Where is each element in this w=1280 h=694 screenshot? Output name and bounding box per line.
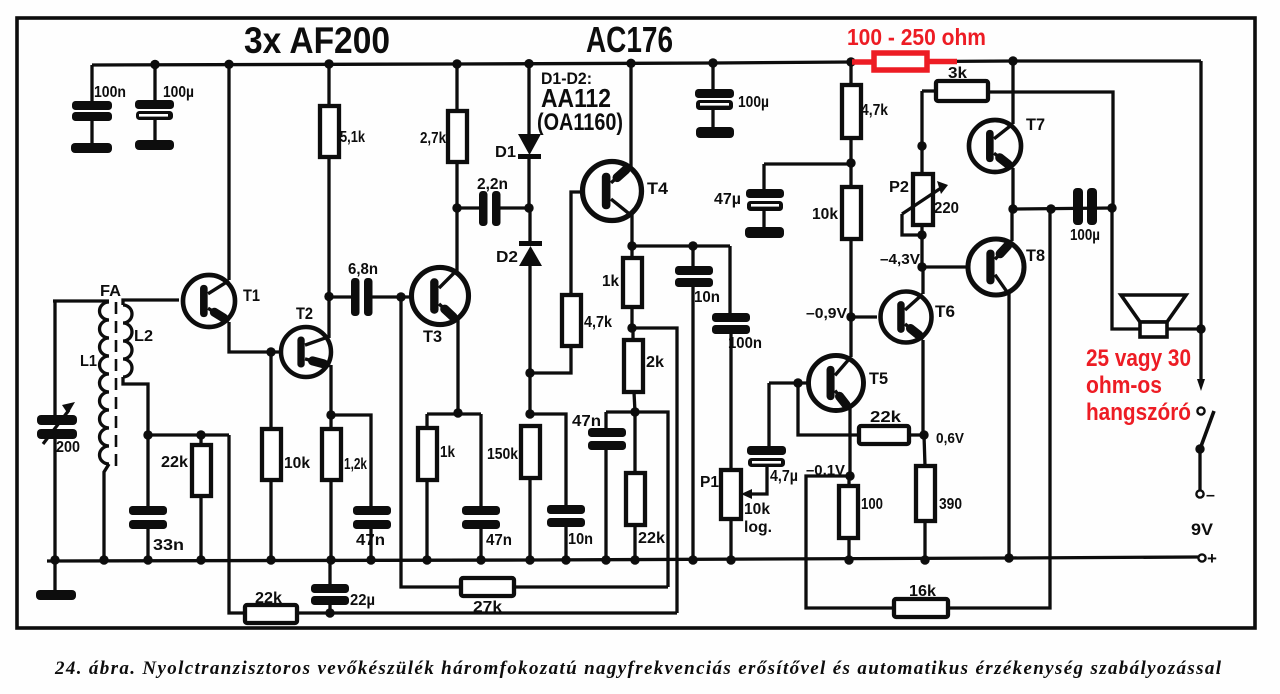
node 1k-2k AGC takeoff <box>627 323 677 613</box>
svg-text:T3: T3 <box>423 327 442 346</box>
wire antenna left branch <box>53 301 109 560</box>
resistor 390 <box>916 435 962 565</box>
svg-text:27k: 27k <box>473 599 502 616</box>
resistor 150k <box>487 368 540 564</box>
capacitor 6,8n coupling <box>329 261 410 316</box>
svg-text:T5: T5 <box>869 369 888 388</box>
svg-text:100 - 250 ohm: 100 - 250 ohm <box>847 24 986 50</box>
wire AGC return to input <box>229 435 245 613</box>
svg-text:2k: 2k <box>646 354 664 371</box>
resistor 3k <box>922 65 1113 207</box>
svg-text:10n: 10n <box>568 531 593 548</box>
svg-text:22k: 22k <box>870 409 901 426</box>
inductor L1 <box>80 302 109 560</box>
svg-text:100µ: 100µ <box>163 84 194 101</box>
inductor L2 <box>123 300 179 435</box>
svg-text:47µ: 47µ <box>714 191 741 208</box>
svg-text:4,7k: 4,7k <box>584 314 612 331</box>
svg-text:–: – <box>1206 487 1215 504</box>
wire T4 emitter row <box>627 213 730 251</box>
variable capacitor 200 <box>37 402 80 456</box>
resistor 22k divider <box>626 412 665 565</box>
capacitor 4,7u coupling <box>747 383 798 485</box>
wire T3 emitter node <box>427 319 481 418</box>
svg-text:100n: 100n <box>94 84 126 101</box>
svg-text:1k: 1k <box>602 273 619 290</box>
label D1-D2 AA112 OA1160 <box>537 69 623 136</box>
svg-text:47n: 47n <box>572 413 601 430</box>
svg-text:T6: T6 <box>935 302 955 321</box>
svg-text:16k: 16k <box>909 583 936 600</box>
resistor 10k driver <box>812 163 861 357</box>
wire T1 collector <box>227 64 230 280</box>
svg-text:3k: 3k <box>948 65 967 82</box>
top rail junction dots <box>150 56 1017 69</box>
wire T2 collector <box>324 292 333 338</box>
capacitor 100u output <box>1070 188 1100 244</box>
label AC176 <box>586 19 673 60</box>
capacitor 33n <box>129 435 184 560</box>
svg-text:10k: 10k <box>812 206 838 223</box>
wire T5 emitter <box>806 406 855 481</box>
svg-text:D2: D2 <box>496 249 518 266</box>
node 2k-22k row <box>606 407 668 587</box>
resistor 100 <box>839 476 883 565</box>
svg-text:0,6V: 0,6V <box>936 430 964 447</box>
resistor 1k T4 emitter <box>602 246 642 328</box>
svg-text:(OA1160): (OA1160) <box>537 109 623 136</box>
capacitor 2,2n <box>452 176 529 226</box>
svg-text:–0,9V: –0,9V <box>806 305 847 322</box>
svg-text:22k: 22k <box>255 590 282 607</box>
svg-text:L2: L2 <box>134 328 153 345</box>
node 0,6V <box>919 430 964 447</box>
capacitor 100n top-left <box>71 65 126 153</box>
capacitor 47u <box>714 164 851 238</box>
resistor 1,2k T2 emitter <box>322 365 367 565</box>
wire T1 emitter to T2 base <box>229 322 281 352</box>
transistor T4 <box>583 162 669 221</box>
svg-text:1k: 1k <box>440 444 455 461</box>
wire T7 collector <box>1011 61 1014 124</box>
svg-text:T7: T7 <box>1026 115 1045 134</box>
svg-text:P1: P1 <box>700 474 719 491</box>
svg-text:2,2n: 2,2n <box>477 176 508 193</box>
svg-text:T4: T4 <box>647 179 669 198</box>
svg-text:log.: log. <box>744 519 772 536</box>
svg-text:10k: 10k <box>744 501 770 518</box>
svg-text:P2: P2 <box>889 179 909 196</box>
svg-text:10k: 10k <box>284 455 310 472</box>
resistor 2,7k <box>420 64 467 275</box>
svg-text:200: 200 <box>56 439 80 456</box>
transistor T2 <box>281 304 331 377</box>
svg-text:2,7k: 2,7k <box>420 130 446 147</box>
diode D2 <box>496 208 542 414</box>
resistor 22k T5 feedback <box>859 409 924 444</box>
speaker <box>1112 208 1206 337</box>
svg-text:100µ: 100µ <box>738 94 769 111</box>
capacitor 47n AGC <box>572 412 626 565</box>
svg-text:T2: T2 <box>296 304 313 323</box>
svg-text:D1: D1 <box>495 144 516 161</box>
transistor T1 <box>183 275 260 327</box>
svg-text:+: + <box>1207 549 1217 568</box>
svg-text:AC176: AC176 <box>586 19 673 60</box>
svg-text:100n: 100n <box>728 335 762 352</box>
svg-text:6,8n: 6,8n <box>348 261 378 278</box>
wire T5 base <box>769 378 859 435</box>
node dots left section <box>50 430 205 564</box>
red annotation speaker text <box>1086 345 1191 426</box>
potentiometer P1 10k log <box>700 467 772 565</box>
node T6 base <box>806 305 877 322</box>
svg-text:47n: 47n <box>356 532 385 549</box>
svg-text:3x AF200: 3x AF200 <box>244 20 390 61</box>
wire T3 base AGC drop <box>396 292 461 587</box>
resistor 1k T3 <box>418 414 455 565</box>
diode D1 <box>495 64 541 213</box>
svg-text:10n: 10n <box>694 289 720 306</box>
wire T4 base <box>571 192 583 295</box>
caption text <box>54 658 1222 679</box>
wire bottom ground rail <box>47 557 1198 561</box>
resistor 27k AGC <box>461 578 668 616</box>
svg-text:T8: T8 <box>1026 246 1045 265</box>
transistor T6 <box>881 292 955 343</box>
svg-text:47n: 47n <box>486 532 512 549</box>
svg-text:4,7µ: 4,7µ <box>770 468 798 485</box>
svg-text:ohm-os: ohm-os <box>1086 372 1162 399</box>
svg-text:100: 100 <box>861 496 883 513</box>
resistor 22k input <box>148 435 229 560</box>
svg-text:9V: 9V <box>1191 520 1214 539</box>
transistor T5 <box>809 356 888 411</box>
svg-text:4,7k: 4,7k <box>861 102 888 119</box>
capacitor 22u AGC <box>311 560 375 618</box>
resistor 10k T1 emitter <box>262 347 310 564</box>
wire T7 emitter output row <box>1008 168 1116 214</box>
svg-text:220: 220 <box>934 200 959 217</box>
switch and battery terminals <box>1191 329 1217 568</box>
capacitor 10n bias <box>530 414 593 565</box>
svg-text:150k: 150k <box>487 446 518 463</box>
svg-text:22µ: 22µ <box>350 592 375 609</box>
svg-text:5,1k: 5,1k <box>340 129 365 146</box>
capacitor 100n coupling <box>712 246 762 470</box>
resistor 22k AGC bottom <box>245 590 677 623</box>
wire T4 collector <box>629 63 632 170</box>
wire T6 collector <box>921 267 924 294</box>
red annotation resistor 100-250 ohm <box>847 24 986 70</box>
svg-text:22k: 22k <box>161 454 188 471</box>
resistor 2k <box>624 328 664 412</box>
ground symbol <box>36 560 76 600</box>
svg-text:25 vagy 30: 25 vagy 30 <box>1086 345 1191 372</box>
wire T6 emitter <box>921 340 924 435</box>
wire right supply drop to speaker <box>1199 61 1202 329</box>
wire top supply rail <box>92 61 1201 65</box>
svg-text:–4,3V: –4,3V <box>880 251 920 268</box>
capacitor 47n T2 emitter <box>326 410 391 564</box>
svg-text:22k: 22k <box>638 530 665 547</box>
capacitor 100u supply <box>695 63 769 138</box>
capacitor 10n detector <box>675 246 720 565</box>
node -4,3V T8 base <box>880 251 967 272</box>
resistor 5,1k <box>320 64 365 297</box>
wire T8 collector <box>1010 209 1013 241</box>
capacitor 100u top-left electrolytic <box>135 64 194 150</box>
wire T8 emitter <box>1004 292 1013 563</box>
svg-text:T1: T1 <box>243 286 260 305</box>
svg-text:L1: L1 <box>80 353 97 370</box>
capacitor 47n T3 <box>462 414 512 565</box>
transistor T7 <box>969 115 1045 172</box>
svg-text:24. ábra. Nyolctranzisztoros v: 24. ábra. Nyolctranzisztoros vevőkészülé… <box>54 658 1222 679</box>
resistor 4,7k T4 base <box>530 295 612 373</box>
label 3x AF200 <box>244 20 390 61</box>
resistor 4,7k driver <box>842 62 888 168</box>
wire 16k feedback branch <box>806 476 894 608</box>
resistor 16k <box>894 210 1050 617</box>
potentiometer P2 220 <box>889 91 959 267</box>
transformer core dashed <box>100 283 121 467</box>
svg-text:390: 390 <box>939 496 962 513</box>
transistor T8 <box>968 239 1045 295</box>
transistor T3 <box>411 267 468 346</box>
svg-text:100µ: 100µ <box>1070 227 1100 244</box>
svg-text:1,2k: 1,2k <box>344 456 367 473</box>
svg-text:hangszóró: hangszóró <box>1086 399 1191 426</box>
svg-text:33n: 33n <box>153 537 184 554</box>
svg-text:FA: FA <box>100 283 121 300</box>
